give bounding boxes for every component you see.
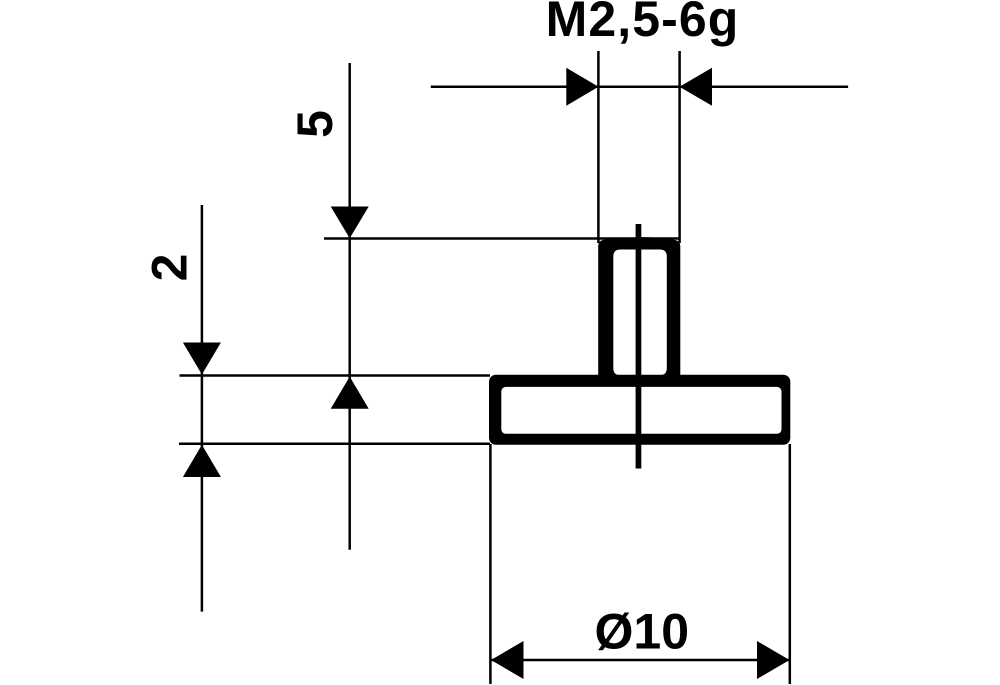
arrow right-pointing at left extension bbox=[566, 68, 598, 106]
extension line left (stud left edge) bbox=[597, 51, 600, 243]
dimension line 2 (vertical) bbox=[201, 205, 204, 612]
svg-text:2: 2 bbox=[142, 254, 198, 282]
svg-text:5: 5 bbox=[287, 110, 343, 138]
dimension line 5 (vertical) bbox=[348, 63, 351, 550]
arrow left-pointing at Ø10 left bbox=[491, 641, 524, 679]
disc-top level line bbox=[180, 374, 491, 377]
dimension line Ø10 bbox=[491, 659, 789, 662]
centerline bbox=[636, 224, 642, 469]
stud bore (white inner) bbox=[613, 250, 667, 376]
disc-bottom level line bbox=[179, 443, 490, 446]
disc inner (white) bbox=[501, 387, 781, 434]
extension line right (stud right edge) bbox=[678, 51, 681, 243]
stud-top level line bbox=[324, 237, 679, 240]
arrow down at stud-top line bbox=[331, 207, 369, 239]
arrow up below disc-top line bbox=[331, 377, 369, 409]
arrow down at disc-top line bbox=[183, 343, 221, 375]
disc outline bbox=[489, 375, 790, 445]
stud outline (threaded shank, domed top) bbox=[598, 237, 680, 376]
extension line Ø10 left bbox=[489, 444, 492, 684]
arrow left-pointing at right extension bbox=[680, 68, 713, 106]
extension line Ø10 right bbox=[789, 444, 792, 684]
svg-text:M2,5-6g: M2,5-6g bbox=[546, 0, 740, 47]
arrow up at disc-bottom line bbox=[183, 445, 221, 477]
dimension line M2,5 (top horizontal) bbox=[431, 86, 848, 89]
svg-text:Ø10: Ø10 bbox=[595, 603, 690, 659]
arrow right-pointing at Ø10 right bbox=[757, 641, 790, 679]
